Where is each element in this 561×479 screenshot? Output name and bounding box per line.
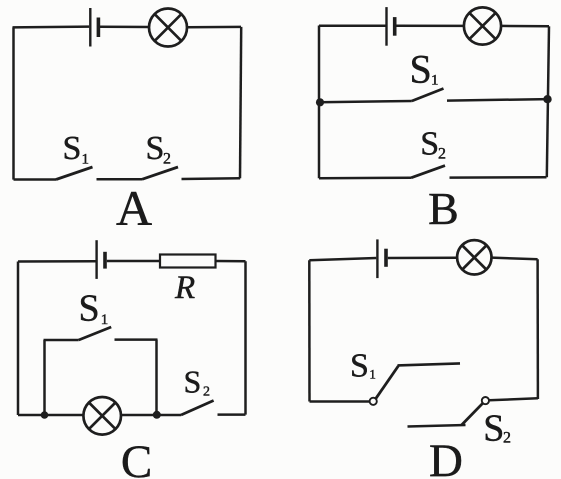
switch S2 (D) contact wire (408, 425, 466, 427)
lamp C circle (83, 397, 121, 435)
branch left vertical wire (C) (43, 340, 46, 415)
svg-text:2: 2 (163, 151, 171, 168)
switch S1 (C) blade (79, 327, 112, 340)
circuit D right wire (536, 259, 539, 399)
switch S2 (B) blade (411, 166, 445, 178)
lamp B circle (464, 7, 501, 44)
battery C short thick plate (103, 252, 107, 269)
lamp B cross (469, 13, 495, 39)
svg-text:S: S (420, 126, 439, 163)
junction dot C left (41, 411, 49, 419)
circuit B top wire middle segment (396, 25, 464, 28)
lamp D circle (457, 240, 491, 274)
label S2 (C) (184, 363, 211, 399)
label S2 (D) (483, 408, 511, 450)
label S1 (B) (410, 46, 439, 91)
circuit C top wire left segment (18, 260, 96, 263)
circuit C bottom wire segment 3 (218, 413, 246, 416)
circuit B bottom wire segment 2 (450, 176, 547, 179)
battery A short thick plate (97, 18, 101, 38)
circuit B bottom wire segment 1 (319, 177, 411, 180)
switch S1 (D) blade (376, 366, 399, 399)
resistor R box (160, 255, 216, 268)
switch S1 (D) pivot circle (370, 398, 377, 405)
svg-text:S: S (146, 130, 165, 167)
circuit D left wire (308, 260, 311, 401)
svg-text:S: S (184, 363, 202, 399)
circuit A top wire right segment (187, 26, 241, 29)
svg-text:S: S (350, 347, 369, 384)
switch S2 (D) blade (462, 403, 483, 425)
circuit B right wire (547, 26, 549, 177)
switch S2 (C) blade (181, 401, 214, 416)
circuit C top wire right segment (216, 260, 246, 263)
branch top wire left segment (C) (44, 339, 79, 342)
circuit D top wire right segment (492, 258, 538, 260)
lamp D cross (462, 246, 486, 270)
circuit B middle wire right segment (447, 99, 548, 101)
junction dot B left (316, 98, 324, 106)
svg-text:B: B (428, 183, 459, 234)
svg-text:1: 1 (431, 73, 439, 89)
circuit A top wire middle segment (100, 26, 149, 29)
svg-text:A: A (116, 180, 152, 236)
svg-text:S: S (63, 130, 82, 167)
branch right vertical wire (C) (155, 340, 158, 415)
switch S2 (A) blade (142, 167, 178, 179)
svg-text:S: S (410, 46, 432, 91)
label S2 (A) (146, 130, 172, 168)
circuit A top wire left segment (13, 25, 90, 28)
svg-text:1: 1 (369, 367, 376, 382)
branch top wire right segment (C) (115, 338, 158, 341)
lamp A cross (155, 14, 182, 41)
circuit C bottom wire segment 2 (121, 414, 181, 417)
svg-text:2: 2 (203, 385, 210, 400)
circuit A right wire (240, 27, 241, 178)
circuit A bottom wire segment 1 (14, 178, 57, 181)
circuit C bottom wire segment 1 (18, 414, 84, 417)
circuit B left wire (318, 26, 321, 179)
switch S1 (D) contact wire (398, 363, 461, 365)
circuit D top wire left segment (309, 258, 376, 260)
label S1 (C) (79, 288, 109, 330)
lamp C cross (89, 403, 116, 430)
circuit B middle wire left segment (319, 101, 412, 102)
lamp A circle (149, 9, 187, 47)
switch S2 (D) pivot circle (482, 397, 489, 404)
circuit B top wire left segment (319, 25, 386, 28)
battery C long plate (95, 240, 97, 279)
switch S1 (B) blade (412, 89, 444, 102)
junction dot B right (543, 95, 551, 103)
svg-text:1: 1 (101, 312, 109, 328)
battery A long plate (89, 8, 91, 47)
svg-text:S: S (483, 408, 504, 450)
battery B short thick plate (393, 17, 397, 36)
svg-text:2: 2 (438, 146, 446, 163)
switch S1 (A) blade (56, 167, 93, 180)
circuit A frame: left wire (12, 27, 15, 179)
battery D short thick plate (384, 249, 388, 267)
circuit B top wire right segment (501, 25, 549, 28)
circuit A bottom wire segment 2 (97, 178, 143, 181)
circuit C left wire (17, 262, 20, 416)
circuit D bottom wire left segment (310, 400, 370, 403)
circuit C top wire middle segment (107, 260, 160, 263)
label S2 (B) (420, 126, 446, 163)
junction dot C right (153, 411, 161, 419)
battery D long plate (376, 239, 378, 278)
svg-text:S: S (79, 288, 100, 330)
svg-text:C: C (121, 436, 152, 479)
label S1 (A) (63, 130, 90, 168)
circuit D bottom wire right segment (489, 398, 538, 400)
svg-text:D: D (429, 435, 463, 479)
battery B long plate (385, 7, 387, 46)
svg-text:R: R (174, 270, 195, 306)
circuit D top wire middle segment (388, 256, 458, 259)
label S1 (D) (350, 347, 376, 384)
svg-text:2: 2 (503, 429, 511, 446)
circuit A bottom wire segment 3 (182, 177, 241, 180)
circuit C right wire (244, 261, 247, 414)
svg-text:1: 1 (82, 152, 90, 168)
